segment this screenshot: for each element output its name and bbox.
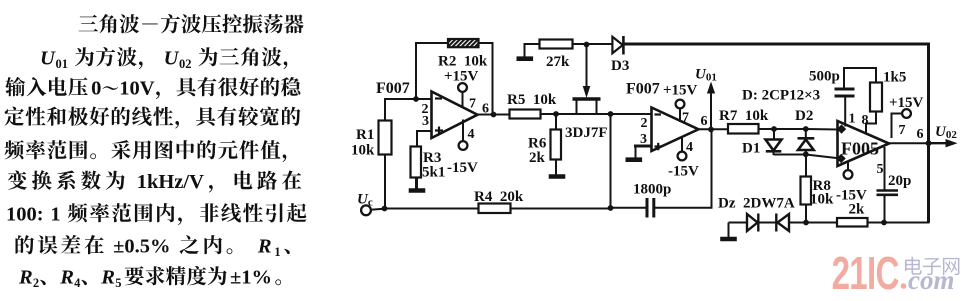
capacitor 500p <box>835 88 855 91</box>
svg-text:±1%: ±1% <box>230 267 272 289</box>
node U1 output <box>491 112 497 118</box>
ground of 27k resistor <box>517 56 534 61</box>
node R1 bottom on rail <box>382 206 388 212</box>
wire U1 pin 3 input <box>417 131 432 147</box>
resistor R8 10k <box>801 177 812 205</box>
terminal -15V of U1 <box>459 141 468 150</box>
op-amp U3 lower input diamond <box>836 154 845 163</box>
svg-text:4: 4 <box>74 276 81 290</box>
svg-text:U01: U01 <box>695 67 717 84</box>
wire D3 to top rail and right rail down <box>623 44 929 223</box>
resistor 1k5 <box>870 83 882 112</box>
ground under R3 <box>416 177 418 190</box>
wire U1 pin 4 stub <box>462 120 464 142</box>
svg-text:1800p: 1800p <box>633 182 671 198</box>
zener Dz-a <box>747 214 758 231</box>
terminal Uc input <box>361 205 371 215</box>
svg-text:F007: F007 <box>376 80 410 97</box>
svg-text:1: 1 <box>849 112 856 127</box>
svg-text:8: 8 <box>862 113 869 128</box>
svg-text:U: U <box>40 48 56 70</box>
svg-text:5: 5 <box>115 276 121 290</box>
wire D1 top stub <box>773 129 775 140</box>
wire bottom rail middle segment <box>510 208 612 210</box>
wire C1 bottom lead to U3 pin 1 <box>844 98 846 127</box>
svg-text:R: R <box>100 267 115 289</box>
wire between zeners <box>759 222 777 224</box>
svg-text:F007: F007 <box>626 81 660 98</box>
resistor R6 2k <box>551 130 562 160</box>
terminal +15V of U2 <box>676 100 685 109</box>
node A <box>413 96 419 102</box>
svg-text:4: 4 <box>686 140 693 155</box>
circuit description text block <box>5 14 307 290</box>
wire D2 top stub <box>805 129 807 139</box>
wire D1 bottom stub <box>773 151 775 156</box>
21IC.com logo <box>832 249 960 299</box>
wire Uo1 branch <box>710 84 712 130</box>
wire R6 bottom stub to ground <box>555 159 557 175</box>
terminal +15V of U3 <box>902 109 911 118</box>
wire C1 top lead to compensation loop <box>844 68 876 88</box>
svg-text:R1: R1 <box>356 127 374 143</box>
wire second zener to node F <box>789 222 838 224</box>
svg-text:2k: 2k <box>529 150 546 166</box>
svg-text:3: 3 <box>422 114 429 129</box>
op-amp U2 plus mark <box>655 145 663 147</box>
wire node C down to JFET gate <box>586 44 588 88</box>
svg-text:20p: 20p <box>888 173 911 189</box>
wire Uc to bottom rail <box>371 209 386 210</box>
svg-text:D1: D1 <box>742 141 760 157</box>
svg-text:02: 02 <box>179 57 192 71</box>
svg-text:01: 01 <box>56 57 69 71</box>
wire node E to op-amp U3 upper input <box>806 128 839 131</box>
node C (27k/D3/gate) <box>584 42 590 48</box>
node G (2k/20p/rail) <box>881 220 887 226</box>
svg-text:R7 10k: R7 10k <box>719 108 769 124</box>
wire Dz ground stub <box>728 223 730 238</box>
svg-text:5: 5 <box>877 162 884 177</box>
op-amp U1 plus mark <box>435 129 443 131</box>
wire U3 pin 4 stub <box>847 161 849 171</box>
node E (D2 top) <box>803 126 809 132</box>
node B (R5/R6/JFET source) <box>553 111 559 117</box>
node U3 output on right rail <box>926 140 932 146</box>
wire lower clamp rail to U3 lower input <box>774 155 839 159</box>
wire Dz ground to first zener <box>729 222 748 224</box>
resistor R1 10k <box>379 121 392 155</box>
resistor 27k <box>540 40 573 49</box>
svg-text:3DJ7F: 3DJ7F <box>565 125 608 141</box>
wire R2 right leg down to U1 output node <box>479 43 493 115</box>
op-amp U2 F007 triangle <box>652 108 699 152</box>
wire node G to right rail bottom <box>884 222 930 224</box>
node JFET drain <box>608 111 614 117</box>
svg-text:-15V: -15V <box>836 188 867 204</box>
svg-text:7: 7 <box>469 97 476 112</box>
wire U3 pin 5 upper stub <box>884 147 886 190</box>
svg-text:27k: 27k <box>546 54 570 70</box>
svg-text:2k: 2k <box>849 202 866 218</box>
wire U3 pin 7 to +15V terminal <box>892 114 903 139</box>
wire R3 bottom stub <box>415 177 417 189</box>
svg-text:R4 20k: R4 20k <box>474 189 524 205</box>
node bottom rail / drain leg <box>608 205 614 211</box>
resistor R5 10k <box>510 110 541 119</box>
wire R8 top stub <box>805 155 807 178</box>
JFET Q1 source leg <box>576 101 578 115</box>
svg-text:2: 2 <box>641 116 648 131</box>
resistor R2 10k (hatched) <box>448 39 479 47</box>
svg-text:D3: D3 <box>611 58 629 74</box>
svg-text:6: 6 <box>482 102 489 117</box>
terminal -15V of U3 <box>844 170 853 179</box>
wire 27k ground stub <box>525 44 541 57</box>
svg-text:500p: 500p <box>809 69 840 85</box>
wire R1 bottom lead to bottom rail <box>384 154 386 209</box>
svg-text:100:: 100: <box>6 204 44 226</box>
op-amp U1 F007 triangle <box>432 92 478 139</box>
wire U2 pin 7 stub <box>679 109 681 123</box>
ground under R6 <box>549 174 566 179</box>
wire bottom rail left segment <box>384 208 479 210</box>
wire U1 output to R5 <box>476 114 510 116</box>
svg-text:+15V: +15V <box>889 95 924 111</box>
diode D1 <box>766 140 782 151</box>
svg-text:+15V: +15V <box>444 69 479 85</box>
svg-text:1: 1 <box>274 245 280 259</box>
svg-text:R5 10k: R5 10k <box>507 92 557 108</box>
ground at U2 pin 3 <box>626 157 643 162</box>
node clamp rail / R8 <box>803 151 809 157</box>
wire U1 pin 7 stub <box>462 92 464 107</box>
svg-text:±0.5%: ±0.5% <box>113 236 170 258</box>
op-amp U3 upper input diamond <box>837 124 846 133</box>
svg-text:R2 10k: R2 10k <box>438 54 488 70</box>
zener Dz-b <box>778 214 790 231</box>
wire U2 pin3 ground stub <box>635 146 637 158</box>
svg-text:10V: 10V <box>119 78 155 100</box>
svg-text:7: 7 <box>682 111 689 126</box>
node D (R7/D1) <box>771 126 777 132</box>
op-amp U2 minus mark <box>655 113 662 115</box>
svg-text:1: 1 <box>50 204 60 226</box>
wire node B to op-amp U2 pin 2 (JFET channel) <box>556 113 652 115</box>
wire U2 pin 4 stub <box>681 136 683 152</box>
wire U3 output to right rail <box>887 142 930 144</box>
JFET Q1 gate arrow <box>583 86 591 98</box>
svg-text:5k1: 5k1 <box>422 165 445 181</box>
terminal +15V of U1 <box>458 83 467 92</box>
wire U2 output to R7 <box>697 128 729 130</box>
svg-text:0: 0 <box>91 78 101 100</box>
svg-text:R: R <box>18 267 33 289</box>
wire R7 to node D <box>759 128 775 130</box>
wire R8 bottom stub to node F <box>805 204 807 223</box>
node F (R8/Dz/2k) <box>803 220 809 226</box>
wire U3 pin 5 lower stub (20p to node G) <box>884 194 886 223</box>
wire R6 top stub <box>555 114 557 130</box>
svg-text:6: 6 <box>917 127 924 142</box>
svg-text:-15V: -15V <box>447 160 478 176</box>
resistor R7 10k <box>728 124 759 134</box>
svg-text:R: R <box>257 236 272 258</box>
capacitor 20p <box>877 189 899 192</box>
wire D2 bottom stub <box>805 150 807 155</box>
node U2 output / Uo1 <box>708 127 714 133</box>
svg-text:U: U <box>164 48 180 70</box>
wire 1k5 bottom lead to U3 pin 8 <box>866 111 876 134</box>
wire bottom rail to capacitor C2 <box>611 207 648 209</box>
svg-text:1k5: 1k5 <box>883 70 906 86</box>
svg-text:+15V: +15V <box>663 83 698 99</box>
svg-text:Dz 2DW7A: Dz 2DW7A <box>718 196 795 212</box>
JFET Q1 3DJ7F gate bar <box>573 97 601 101</box>
diode D3 <box>612 37 622 53</box>
svg-text:Uc: Uc <box>357 192 373 209</box>
resistor R4 20k <box>479 204 511 214</box>
svg-text:6: 6 <box>701 114 708 129</box>
arrow output Uo2 <box>929 142 948 144</box>
wire node D to node E <box>774 128 806 130</box>
wire 2k to node G <box>867 222 885 224</box>
svg-text:4: 4 <box>468 127 475 142</box>
wire R2 left leg from node A up to feedback row <box>416 43 448 99</box>
resistor R3 5k1 <box>411 147 422 178</box>
wire capacitor C2 to U2 output leg <box>654 130 712 208</box>
svg-text:D: 2CP12×3: D: 2CP12×3 <box>742 88 820 104</box>
wire R5 to node B <box>540 113 557 115</box>
svg-text:U02: U02 <box>935 124 957 141</box>
wire input node A to op-amp U1 pin 2 and R1 top lead <box>385 99 432 121</box>
wire JFET drain leg down to bottom rail <box>610 114 612 208</box>
svg-text:2: 2 <box>33 276 39 290</box>
svg-text:21IC: 21IC <box>832 249 899 299</box>
svg-text:R: R <box>59 267 74 289</box>
svg-text:-15V: -15V <box>668 164 699 180</box>
svg-text:10k: 10k <box>351 143 375 159</box>
capacitor 1800p <box>646 198 649 218</box>
terminal -15V of U2 <box>678 152 687 161</box>
svg-text:D2: D2 <box>795 108 813 124</box>
ground at Dz <box>720 237 737 242</box>
op-amp U2 pin3 input bar <box>634 145 652 148</box>
op-amp U3 F005 triangle <box>838 121 890 166</box>
svg-text:3: 3 <box>640 132 647 147</box>
svg-text:F005: F005 <box>841 139 879 159</box>
svg-text:10k: 10k <box>810 192 834 208</box>
arrow output Uo1 <box>707 82 715 94</box>
diode D2 <box>798 137 815 140</box>
svg-text:1kHz/V: 1kHz/V <box>137 171 204 193</box>
op-amp U1 minus mark <box>435 97 442 99</box>
svg-text:7: 7 <box>899 123 906 138</box>
JFET Q1 drain leg <box>596 101 598 115</box>
resistor 2k <box>837 218 868 227</box>
wire 27k to node C <box>572 43 613 45</box>
